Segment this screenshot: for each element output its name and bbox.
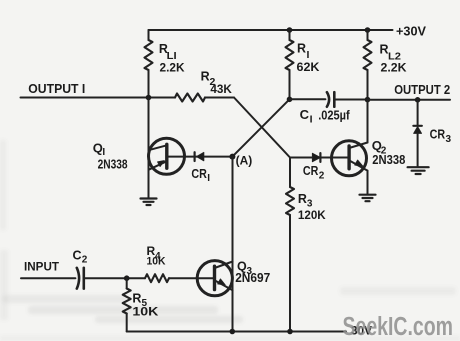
wire: OUTPUT 2 line bbox=[368, 99, 451, 101]
wire: cross-couple diagonal from R1/C1 node to node A bbox=[232, 99, 289, 156]
svg-text:2.2K: 2.2K bbox=[160, 62, 186, 74]
node: RL2 top junction bbox=[365, 27, 371, 33]
wire: Q2 collector riser bbox=[367, 100, 369, 143]
node: R1 bottom / C1 left junction bbox=[287, 97, 293, 103]
diode CR2 bbox=[312, 153, 320, 162]
node: R3 branch on bottom rail bbox=[287, 329, 293, 335]
resistor R4 bbox=[145, 274, 169, 282]
resistor RL1 bbox=[145, 30, 153, 98]
svg-text:(A): (A) bbox=[236, 154, 253, 168]
svg-text:R: R bbox=[297, 42, 306, 56]
+30V supply rail wire bbox=[149, 29, 393, 31]
svg-text:LI: LI bbox=[167, 50, 177, 62]
wire: C1 right plate to Q2 collector node bbox=[334, 99, 367, 101]
wire: INPUT line bbox=[21, 277, 75, 279]
svg-text:62K: 62K bbox=[297, 62, 321, 74]
node: C2/R4/R5 junction bbox=[124, 275, 130, 281]
svg-text:10K: 10K bbox=[132, 307, 159, 319]
svg-text:CR: CR bbox=[430, 128, 446, 142]
svg-text:2N338: 2N338 bbox=[98, 157, 128, 172]
svg-text:I: I bbox=[307, 49, 310, 61]
svg-text:CR: CR bbox=[191, 167, 207, 181]
svg-text:R: R bbox=[201, 70, 210, 84]
svg-text:INPUT: INPUT bbox=[24, 259, 60, 273]
resistor R3 bbox=[286, 158, 294, 332]
node: RL2 bottom / C1 / Q2 collector / OUTPUT 2 junction bbox=[365, 97, 371, 103]
node: Q1 collector / RL1 / R2 junction bbox=[146, 95, 152, 101]
svg-text:120K: 120K bbox=[298, 210, 326, 222]
transistor Q2 (2N338) bbox=[290, 141, 368, 176]
resistor R5 bbox=[123, 278, 131, 331]
node: R1 top junction bbox=[287, 27, 293, 33]
diode CR3 bbox=[413, 100, 421, 167]
svg-text:2: 2 bbox=[82, 255, 88, 266]
svg-text:Q: Q bbox=[93, 141, 103, 156]
node: node A branch on bottom rail bbox=[230, 329, 236, 335]
wire: cross-couple diagonal from R2 to CR2/R3 node bbox=[234, 98, 290, 158]
wire: R4 to Q3 base bbox=[169, 277, 215, 279]
svg-text:CR: CR bbox=[303, 164, 319, 178]
svg-text:R: R bbox=[298, 192, 307, 206]
svg-text:10K: 10K bbox=[147, 256, 166, 268]
svg-text:I: I bbox=[310, 114, 313, 126]
capacitor C1 bbox=[327, 92, 334, 107]
wire: Q2 emitter to ground bbox=[367, 171, 369, 194]
svg-text:43K: 43K bbox=[210, 84, 232, 96]
wire: R2 to cross-over bbox=[205, 97, 234, 99]
svg-text:+30V: +30V bbox=[396, 23, 426, 38]
svg-text:OUTPUT 2: OUTPUT 2 bbox=[394, 82, 450, 97]
wire: Q1 collector riser and emitter drop bbox=[148, 98, 150, 198]
svg-text:C: C bbox=[73, 248, 82, 262]
resistor R1 bbox=[286, 30, 294, 99]
diode CR1 bbox=[167, 152, 233, 161]
ground symbol under CR3 bbox=[408, 167, 429, 174]
ground symbol under Q1 bbox=[141, 199, 157, 206]
svg-text:R: R bbox=[132, 292, 141, 306]
transistor Q1 (2N338) bbox=[149, 138, 185, 174]
transistor Q3 (2N697) bbox=[197, 261, 232, 296]
node A junction bbox=[229, 154, 235, 160]
resistor R2 bbox=[175, 94, 205, 102]
svg-text:SeekIC.com: SeekIC.com bbox=[343, 313, 454, 341]
wire: node A down to bottom rail bbox=[232, 157, 234, 332]
resistor RL2 bbox=[364, 30, 372, 100]
svg-text:C: C bbox=[300, 107, 310, 122]
wire: bottom rail bbox=[127, 331, 346, 333]
svg-text:2.2K: 2.2K bbox=[381, 63, 408, 75]
svg-text:2: 2 bbox=[319, 171, 325, 182]
svg-text:3: 3 bbox=[446, 134, 452, 145]
wire: C2 to R4/R5 junction bbox=[84, 277, 145, 279]
svg-text:L2: L2 bbox=[388, 51, 401, 63]
capacitor C2 bbox=[77, 268, 84, 289]
wire: OUTPUT 1 line bbox=[21, 97, 176, 99]
wire: to C1 left plate bbox=[290, 98, 326, 100]
svg-text:OUTPUT I: OUTPUT I bbox=[28, 81, 85, 96]
svg-text:3: 3 bbox=[307, 199, 313, 210]
svg-text:.025µf: .025µf bbox=[318, 109, 350, 123]
svg-text:2N697: 2N697 bbox=[235, 271, 270, 285]
ground symbol under Q2 bbox=[360, 195, 376, 202]
svg-text:2N338: 2N338 bbox=[372, 152, 405, 167]
node: CR3 branch junction bbox=[415, 97, 421, 103]
svg-text:I: I bbox=[207, 173, 210, 184]
